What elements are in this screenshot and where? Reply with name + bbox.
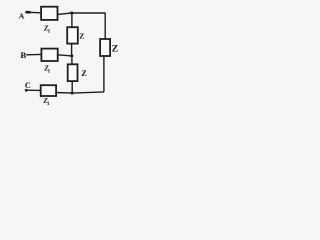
svg-text:Z: Z: [81, 69, 87, 78]
wire bottom rail: [56, 92, 104, 93]
label Z1 (phase C): [42, 96, 50, 107]
svg-text:1: 1: [48, 28, 51, 34]
wire B to Z1 box: [26, 53, 41, 55]
wire junction down to upper Z box: [71, 13, 73, 27]
wire B rail to junction: [58, 55, 72, 56]
terminal dot at C: [25, 89, 28, 92]
impedance box Z1 (phase B): [41, 49, 57, 61]
junction top rail / upper Z: [70, 12, 73, 15]
impedance box Z (right): [100, 39, 110, 56]
wire junction down to lower Z box: [71, 56, 73, 64]
svg-text:1: 1: [47, 101, 50, 107]
wire A to Z1 box: [25, 11, 41, 14]
svg-text:Z: Z: [112, 43, 118, 54]
wire lower Z box down to bottom rail: [71, 82, 73, 93]
impedance box Z (lower vertical): [68, 64, 78, 81]
junction bottom rail / lower Z: [71, 92, 74, 95]
wire right bus lower (right Z box down to bottom rail): [103, 56, 105, 92]
svg-text:C: C: [25, 81, 31, 90]
wire upper Z box down to B junction: [71, 44, 73, 56]
wire top rail: [58, 13, 106, 14]
junction B rail / vertical Z chain: [70, 54, 73, 57]
svg-text:B: B: [20, 50, 26, 60]
impedance box Z1 (phase C): [41, 85, 56, 96]
impedance box Z1 (phase A): [41, 7, 57, 20]
impedance box Z (upper vertical): [67, 27, 78, 43]
wire right bus upper (top rail corner down to right Z box): [104, 13, 106, 39]
terminal blob at A wire start: [26, 11, 31, 14]
svg-text:1: 1: [48, 68, 51, 74]
wire C to Z1 box: [26, 89, 40, 91]
label Z1 (phase B): [43, 64, 50, 75]
svg-text:Z: Z: [79, 31, 84, 40]
svg-text:A: A: [19, 11, 25, 20]
label Z1 (phase A): [43, 23, 51, 34]
